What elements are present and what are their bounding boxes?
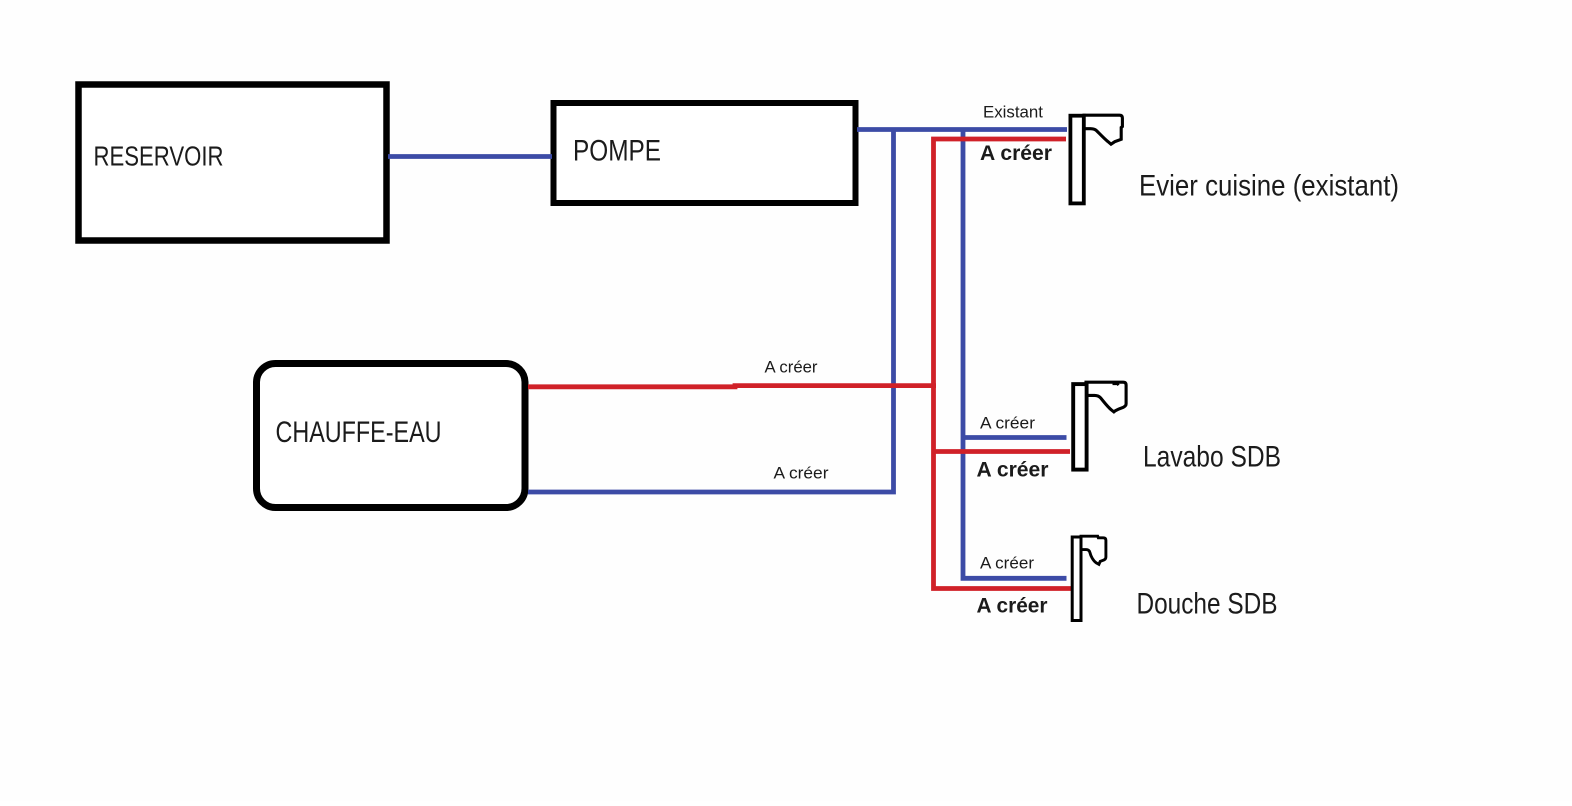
wire blue RESERVOIR to POMPE: [388, 154, 552, 159]
wire red vertical main: [934, 139, 1073, 589]
box POMPE: [554, 103, 856, 203]
svg-text:Lavabo SDB: Lavabo SDB: [1143, 440, 1281, 473]
svg-text:A créer: A créer: [977, 594, 1048, 617]
svg-text:Evier cuisine (existant): Evier cuisine (existant): [1139, 170, 1399, 203]
svg-text:A créer: A créer: [774, 464, 829, 483]
svg-text:RESERVOIR: RESERVOIR: [94, 141, 224, 172]
svg-text:A créer: A créer: [977, 458, 1049, 481]
box CHAUFFE-EAU: [257, 364, 526, 508]
wire blue vertical drop to CHAUFFE-EAU: [528, 130, 894, 493]
svg-text:A créer: A créer: [980, 142, 1052, 165]
wire blue POMPE to Evier (Existant): [857, 127, 1067, 132]
wire red branch to Lavabo: [932, 449, 1071, 454]
svg-text:A créer: A créer: [765, 358, 818, 377]
wire red hot from CHAUFFE-EAU: [528, 386, 936, 387]
svg-text:Existant: Existant: [983, 103, 1043, 122]
box RESERVOIR: [79, 85, 387, 241]
faucet icon Lavabo: [1073, 382, 1126, 469]
svg-text:CHAUFFE-EAU: CHAUFFE-EAU: [276, 416, 442, 449]
faucet icon Douche: [1072, 536, 1106, 620]
svg-text:POMPE: POMPE: [573, 134, 661, 167]
wire blue vertical to Lavabo and Douche: [963, 130, 1067, 579]
wire blue branch to Lavabo: [963, 435, 1067, 440]
svg-text:A créer: A créer: [980, 414, 1035, 433]
svg-text:Douche SDB: Douche SDB: [1137, 588, 1278, 621]
svg-text:A créer: A créer: [980, 553, 1034, 572]
faucet icon Evier: [1070, 115, 1122, 203]
